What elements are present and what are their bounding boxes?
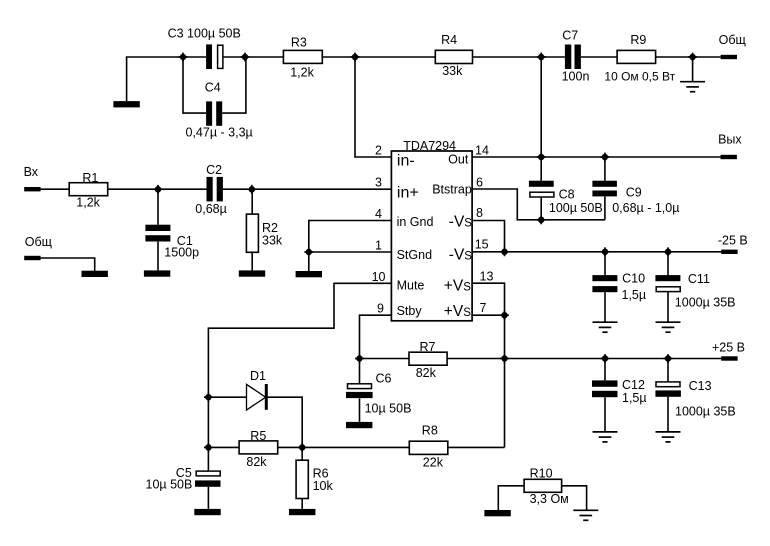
node junction <box>204 443 213 452</box>
wire pin4 in Gnd <box>309 221 392 253</box>
svg-text:100n: 100n <box>562 69 590 83</box>
svg-text:TDA7294: TDA7294 <box>403 139 456 153</box>
wire R5 to R8 <box>278 446 410 448</box>
resistor R9 <box>604 33 675 84</box>
wire +Vs row <box>505 358 722 360</box>
wire pin2 drop <box>355 57 391 157</box>
node junction <box>500 354 509 363</box>
wire Общ to ground <box>41 258 95 271</box>
ground <box>593 432 618 442</box>
wire pin14 Out row <box>472 156 720 158</box>
resistor R3 <box>283 36 322 80</box>
resistor R6 <box>296 447 333 509</box>
node junction <box>664 247 673 256</box>
svg-text:1000µ 35В: 1000µ 35В <box>675 295 736 309</box>
svg-text:in Gnd: in Gnd <box>397 215 434 229</box>
wire pin13 +Vs <box>472 283 504 447</box>
wire C2 to pin3 <box>223 188 392 190</box>
wire pin8 -Vs <box>472 221 504 252</box>
ground <box>82 271 108 277</box>
wire R4 to C7 <box>473 56 565 58</box>
svg-text:1: 1 <box>375 239 382 253</box>
wire Вх to R1 <box>41 188 70 190</box>
node junction <box>537 53 546 62</box>
capacitor C4 <box>186 81 253 140</box>
svg-text:C9: C9 <box>626 186 642 200</box>
svg-text:1,2k: 1,2k <box>76 196 100 210</box>
pin 8 label -Vs <box>449 206 483 230</box>
svg-text:+25 В: +25 В <box>712 340 745 354</box>
svg-text:Out: Out <box>448 152 469 166</box>
wire pin10 Mute <box>208 283 391 447</box>
wire R9 to terminal <box>656 56 721 58</box>
svg-text:C2: C2 <box>206 163 222 177</box>
wire C7 to R9 <box>581 56 617 58</box>
node junction <box>204 393 213 402</box>
svg-text:22k: 22k <box>423 456 444 470</box>
pin 7 label +Vs <box>444 301 487 320</box>
wire R10 right <box>562 486 587 511</box>
pin 10 label Mute <box>372 270 425 293</box>
wire C3 to R3 <box>223 56 283 58</box>
op-amp U1 TDA7294 body <box>391 139 472 321</box>
svg-text:1,5µ: 1,5µ <box>622 288 647 302</box>
pin 3 label in+ <box>375 176 419 202</box>
svg-text:82k: 82k <box>416 366 437 380</box>
node junction <box>537 153 546 162</box>
ground <box>346 422 372 428</box>
pin 13 label +Vs <box>444 270 494 295</box>
node junction <box>351 53 360 62</box>
ground <box>113 101 139 107</box>
pin 4 label in Gnd <box>375 207 433 229</box>
svg-text:C8: C8 <box>559 187 575 201</box>
svg-text:D1: D1 <box>250 369 266 383</box>
node junction <box>241 53 250 62</box>
svg-text:10µ 50В: 10µ 50В <box>146 478 193 492</box>
wire R5 left <box>208 446 239 448</box>
svg-text:33k: 33k <box>442 64 463 78</box>
wire feedback drop <box>540 57 542 157</box>
ground <box>656 432 681 442</box>
svg-text:Вх: Вх <box>24 165 39 179</box>
capacitor C3 <box>168 26 241 69</box>
node junction <box>154 185 163 194</box>
wire R10 left <box>498 486 524 510</box>
capacitor C10 <box>592 252 646 322</box>
node junction <box>601 247 610 256</box>
svg-text:14: 14 <box>475 144 489 158</box>
wire R7 to +Vs <box>447 358 504 360</box>
svg-text:R4: R4 <box>441 33 457 47</box>
capacitor C13 <box>655 359 735 432</box>
wire Stby to R7 <box>360 358 410 360</box>
svg-text:C12: C12 <box>622 378 645 392</box>
diode D1 <box>247 369 267 410</box>
wire pin1 StGnd <box>309 251 392 253</box>
svg-text:in+: in+ <box>397 185 419 202</box>
ground <box>144 270 170 276</box>
svg-text:C13: C13 <box>689 379 712 393</box>
svg-text:R7: R7 <box>420 340 436 354</box>
svg-text:9: 9 <box>377 302 384 316</box>
svg-text:C6: C6 <box>376 371 392 385</box>
svg-text:0,68µ: 0,68µ <box>195 202 227 216</box>
svg-text:3: 3 <box>375 176 382 190</box>
wire C4 branch <box>183 57 246 113</box>
svg-text:10µ 50В: 10µ 50В <box>365 402 412 416</box>
node -25 В terminal <box>718 234 748 254</box>
svg-text:8: 8 <box>476 206 483 220</box>
svg-text:13: 13 <box>480 270 494 284</box>
capacitor C11 <box>655 252 735 322</box>
svg-text:R5: R5 <box>250 429 266 443</box>
ground <box>656 322 681 332</box>
wire D1 cathode <box>266 397 302 447</box>
svg-text:R1: R1 <box>82 171 98 185</box>
wire R8 to +Vs <box>448 446 505 448</box>
pin 2 label in- <box>375 144 415 170</box>
capacitor C12 <box>592 359 647 432</box>
ground <box>239 270 265 276</box>
svg-text:10: 10 <box>372 270 386 284</box>
svg-text:10k: 10k <box>313 479 334 493</box>
node junction <box>179 53 188 62</box>
svg-text:C11: C11 <box>688 272 710 286</box>
svg-text:C3 100µ 50В: C3 100µ 50В <box>168 26 241 40</box>
node junction <box>688 53 697 62</box>
svg-text:R10: R10 <box>530 466 553 480</box>
svg-text:C4: C4 <box>205 81 221 95</box>
ground <box>573 510 598 520</box>
svg-text:33k: 33k <box>262 234 283 248</box>
node Общ terminal top right <box>719 33 746 59</box>
svg-text:StGnd: StGnd <box>397 248 432 262</box>
wire pin15 -Vs row <box>472 251 721 253</box>
ground <box>289 509 315 515</box>
node junction <box>537 215 546 224</box>
wire pin7 +Vs <box>472 314 504 316</box>
capacitor C8 <box>529 157 603 220</box>
svg-text:Общ: Общ <box>25 235 52 249</box>
resistor R1 <box>69 171 108 210</box>
svg-text:3,3 Ом: 3,3 Ом <box>530 492 569 506</box>
svg-text:2: 2 <box>375 144 382 158</box>
pin 15 label -Vs <box>449 237 489 263</box>
wire pin9 Stby <box>360 315 392 358</box>
pin 14 label Out <box>448 144 489 167</box>
svg-text:in-: in- <box>397 153 415 170</box>
svg-text:0,68µ - 1,0µ: 0,68µ - 1,0µ <box>612 201 679 215</box>
node junction <box>601 354 610 363</box>
svg-text:6: 6 <box>476 176 483 190</box>
resistor R7 <box>409 340 447 380</box>
node junction <box>247 185 256 194</box>
ground <box>593 322 618 332</box>
capacitor C1 <box>145 189 199 270</box>
svg-text:Stby: Stby <box>397 304 423 318</box>
pin 6 label Btstrap <box>432 176 483 197</box>
svg-text:-25 В: -25 В <box>718 234 748 248</box>
node +25 В terminal <box>712 340 745 360</box>
capacitor C6 <box>346 359 411 422</box>
svg-text:C7: C7 <box>562 28 578 42</box>
resistor R4 <box>435 33 472 78</box>
svg-text:10 Ом 0,5 Вт: 10 Ом 0,5 Вт <box>604 69 675 83</box>
svg-text:Btstrap: Btstrap <box>432 182 472 196</box>
svg-text:100µ 50В: 100µ 50В <box>549 201 603 215</box>
wire top row left segment <box>127 57 206 101</box>
capacitor C5 <box>146 447 221 509</box>
svg-text:Общ: Общ <box>719 33 746 47</box>
capacitor C2 <box>195 163 227 216</box>
ground <box>484 510 510 516</box>
svg-text:R3: R3 <box>291 36 307 50</box>
node junction <box>500 311 509 320</box>
wire D1 anode <box>208 396 246 398</box>
resistor R5 <box>239 429 278 469</box>
resistor R8 <box>409 423 448 469</box>
svg-text:15: 15 <box>475 237 489 251</box>
node junction <box>601 153 610 162</box>
node Вх terminal <box>24 165 41 191</box>
svg-text:C10: C10 <box>622 272 645 286</box>
capacitor C7 <box>562 28 590 83</box>
pin 1 label StGnd <box>375 239 432 262</box>
ground <box>680 57 705 92</box>
pin 9 label Stby <box>377 302 422 319</box>
svg-text:0,47µ - 3,3µ: 0,47µ - 3,3µ <box>186 125 253 139</box>
node Вых terminal <box>718 133 742 160</box>
svg-text:R8: R8 <box>422 423 438 437</box>
svg-text:1500p: 1500p <box>164 245 199 259</box>
wire R3 to R4 <box>322 56 435 58</box>
svg-text:Вых: Вых <box>718 133 742 147</box>
wire pin6 Btstrap <box>472 189 605 220</box>
node junction <box>664 354 673 363</box>
svg-text:4: 4 <box>375 207 382 221</box>
svg-text:R9: R9 <box>630 33 646 47</box>
capacitor C9 <box>592 157 679 220</box>
ground <box>194 509 220 515</box>
svg-text:1,5µ: 1,5µ <box>622 391 647 405</box>
wire R1 to C2 <box>108 188 207 190</box>
svg-text:Mute: Mute <box>397 279 425 293</box>
ground <box>296 252 322 277</box>
svg-text:1,2k: 1,2k <box>290 65 314 79</box>
svg-text:1000µ 35В: 1000µ 35В <box>675 405 736 419</box>
svg-text:7: 7 <box>480 301 487 315</box>
resistor R10 <box>524 466 569 506</box>
node junction <box>304 248 313 257</box>
svg-text:82k: 82k <box>246 455 267 469</box>
node junction <box>355 354 364 363</box>
resistor R2 <box>246 189 283 270</box>
node junction <box>298 443 307 452</box>
node Общ terminal left <box>24 235 52 260</box>
node junction <box>500 247 509 256</box>
